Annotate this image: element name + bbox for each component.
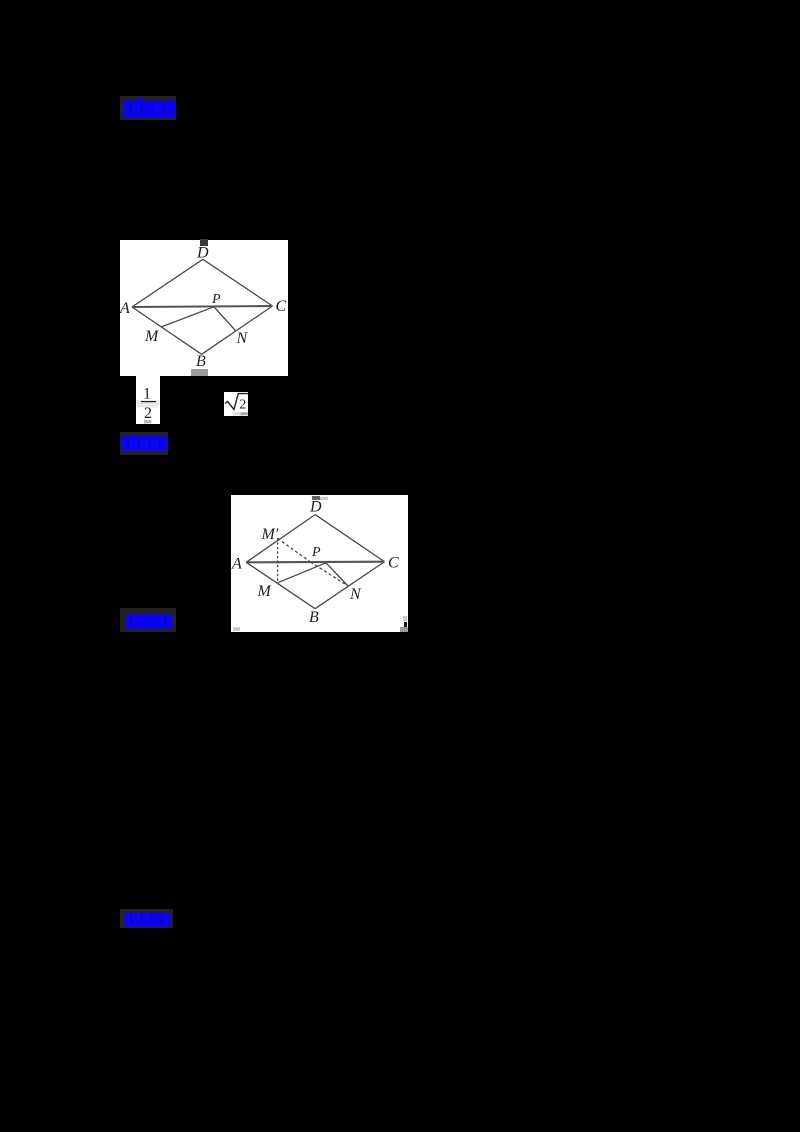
formula 1/2 white panel: [136, 376, 160, 424]
dotted segment M'M: [277, 538, 279, 582]
svg-text:A: A: [231, 556, 242, 573]
side AD: [246, 515, 315, 563]
highlight band behind fraction bar: [137, 400, 159, 408]
svg-text:M′: M′: [261, 526, 279, 543]
radical sign: [225, 394, 248, 410]
svg-text:C: C: [276, 298, 287, 315]
diagram 1 bottom selection handle: [191, 369, 208, 376]
segment MP: [161, 307, 214, 327]
label block 3 (blue 【点评】 tag): [120, 608, 176, 632]
diagram 1 top selection handle: [200, 239, 208, 246]
svg-text:D: D: [196, 244, 209, 261]
segment PN: [214, 307, 235, 331]
dashed segment PN: [311, 562, 349, 586]
svg-text:A: A: [120, 300, 130, 317]
light band bottom: [232, 412, 240, 416]
svg-text:2: 2: [239, 397, 246, 412]
svg-text:P: P: [311, 545, 321, 560]
svg-text:M: M: [144, 328, 160, 345]
label block 2 (blue 【解答】 tag): [120, 432, 168, 455]
svg-text:B: B: [196, 353, 206, 370]
fraction bar: [141, 401, 156, 403]
gray handle bottom right: [240, 412, 248, 415]
svg-text:2: 2: [144, 405, 152, 422]
side DC: [203, 259, 273, 306]
dashed segment M'P: [278, 538, 311, 562]
svg-text:N: N: [349, 586, 362, 603]
solid segment M to bend: [278, 563, 326, 583]
side DC: [315, 515, 384, 562]
svg-text:C: C: [388, 554, 399, 571]
svg-text:B: B: [309, 609, 319, 626]
diagram 2 bottom-left gray patch: [233, 627, 240, 631]
side AB: [246, 562, 315, 608]
formula sqrt(2) white panel: [224, 392, 249, 416]
diagonal AC: [132, 306, 273, 307]
svg-text:M: M: [257, 583, 273, 600]
diagram 1 figure: [120, 240, 288, 376]
diagram 2 top selection handle: [312, 496, 320, 501]
solid segment bend to N: [326, 563, 348, 586]
side AB: [132, 307, 202, 354]
side BC: [315, 562, 384, 609]
label block 4 (blue 【解答】 tag): [120, 909, 173, 928]
diagram 2 bottom-right light patch: [403, 616, 407, 621]
gray handle bottom: [144, 420, 152, 423]
comma after diagram 2: [404, 622, 407, 627]
svg-text:N: N: [236, 330, 249, 347]
side AD: [132, 259, 203, 307]
diagram 2 white panel: [231, 495, 408, 632]
side BC: [202, 306, 273, 354]
diagonal AC: [246, 561, 384, 564]
label block 1 (blue 【分析】 tag): [120, 96, 176, 120]
diagram 2 bottom-right gray patch: [400, 627, 408, 632]
svg-text:1: 1: [143, 385, 151, 402]
svg-text:D: D: [309, 499, 322, 516]
diagram 2 figure: [231, 495, 408, 632]
diagram 1 white panel: [120, 240, 288, 376]
svg-text:P: P: [211, 292, 221, 307]
diagram 2 top handle light part: [320, 497, 328, 500]
